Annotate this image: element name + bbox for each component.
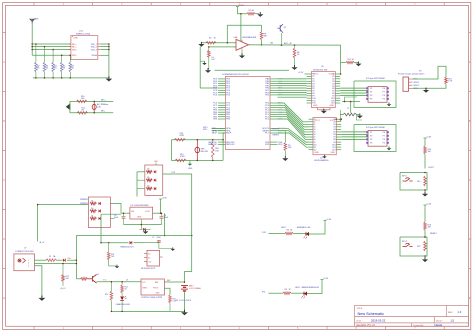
connector CON1 DC jack box — [14, 254, 35, 271]
wire U3 right to IC1 — [340, 87, 368, 89]
ground opamp vee — [241, 50, 243, 55]
diode D4 with resistor — [90, 217, 97, 220]
wire jack ground leg — [35, 266, 42, 298]
wire opamp in- input — [201, 42, 236, 44]
U1 top GND pin — [72, 36, 74, 37]
wire small net top right — [341, 62, 346, 64]
diode D8 small — [140, 228, 143, 230]
svg-text:VDD_2: VDD_2 — [91, 46, 97, 48]
svg-text:VOUT: VOUT — [145, 211, 151, 213]
svg-text:BOOT0: BOOT0 — [273, 129, 281, 131]
wire P2 loop to R21 — [413, 66, 447, 79]
resistor R21 — [445, 77, 448, 84]
svg-text:VDDA: VDDA — [92, 54, 98, 57]
svg-text:P4: P4 — [370, 143, 372, 145]
wire opamp in+ input — [209, 46, 236, 48]
svg-text:I12: I12 — [314, 149, 317, 151]
svg-text:ULN2003AFWG: ULN2003AFWG — [314, 159, 329, 162]
svg-text:R4: R4 — [285, 289, 287, 291]
svg-text:VDD_3: VDD_3 — [91, 49, 97, 51]
transistor Q3 — [278, 24, 284, 33]
svg-text:+3.3V: +3.3V — [426, 204, 432, 206]
wire big distribution net — [76, 235, 191, 237]
svg-text:R22: R22 — [417, 246, 420, 248]
resistor R mic top — [77, 100, 88, 103]
svg-text:Li-PO-70MAH: Li-PO-70MAH — [189, 287, 201, 290]
svg-text:D4: D4 — [91, 215, 93, 217]
svg-text:D7: D7 — [147, 185, 149, 187]
power flag +3.3V LED1 — [323, 220, 326, 222]
svg-text:PA2-OSC: PA2-OSC — [208, 143, 217, 146]
ground SW2 — [424, 256, 426, 259]
wire U5 rail drop to distribution net — [164, 213, 166, 235]
resistor pull R2 — [35, 44, 37, 62]
crystal Y1 — [343, 113, 357, 116]
svg-text:P4: P4 — [370, 99, 372, 101]
svg-text:LED2: LED2 — [281, 227, 286, 229]
resistor R LED1 — [285, 232, 293, 235]
svg-text:IC1 8pin DIP2.54MM: IC1 8pin DIP2.54MM — [366, 78, 385, 80]
wire mic/spk row 3 — [31, 47, 33, 50]
svg-text:P3: P3 — [370, 139, 372, 141]
capacitor C6 right — [161, 213, 163, 216]
svg-text:ADC_IN: ADC_IN — [284, 42, 292, 45]
wire diagonal bus MCU to U2 — [278, 103, 309, 122]
ground IC1 — [388, 102, 390, 104]
resistor R Q1 base — [81, 278, 88, 281]
IC U9 box — [147, 250, 160, 266]
svg-text:SIM800C-DS(2): SIM800C-DS(2) — [76, 34, 91, 36]
battery BAT1 — [181, 286, 188, 291]
svg-text:U5 XC6206P332MR: U5 XC6206P332MR — [131, 205, 150, 207]
svg-text:PROG: PROG — [153, 288, 159, 290]
svg-text:Q1: Q1 — [97, 274, 100, 276]
svg-text:P2: P2 — [370, 92, 372, 94]
key matrix box D5-D7 — [145, 165, 163, 195]
microphone symbol MK1 — [66, 104, 70, 110]
ground jack — [38, 296, 45, 301]
svg-text:C7: C7 — [152, 237, 154, 239]
svg-text:GND: GND — [313, 105, 318, 107]
U3 left pins — [307, 74, 316, 105]
svg-text:LTH7R-LTC4054-4.2BTR: LTH7R-LTC4054-4.2BTR — [141, 297, 163, 299]
svg-text:DS1302ZN+T&R: DS1302ZN+T&R — [313, 69, 328, 71]
wire boot chain — [424, 140, 426, 146]
svg-text:KEY1: KEY1 — [402, 176, 407, 178]
svg-text:LED3: LED3 — [295, 287, 300, 289]
wire mic/spk row 2 — [31, 44, 33, 47]
svg-text:MICP: MICP — [212, 133, 218, 135]
ground opamp top — [257, 12, 263, 17]
diode D6 with resistor — [146, 179, 152, 182]
svg-text:TITLE:: TITLE: — [357, 308, 364, 310]
svg-text:1/1: 1/1 — [451, 319, 455, 323]
diode D5 with resistor — [146, 171, 152, 174]
transistor Q1 — [88, 275, 97, 284]
svg-text:P12: P12 — [312, 103, 315, 105]
resistor R feedback — [260, 32, 263, 40]
svg-text:P5: P5 — [383, 99, 385, 101]
ground R17 — [355, 61, 361, 66]
resistor R opamp top — [247, 12, 255, 15]
svg-text:RESET: RESET — [273, 135, 280, 137]
wire key box2 left — [38, 204, 89, 206]
resistor R prog — [169, 295, 172, 303]
svg-text:PWRKEY: PWRKEY — [80, 199, 89, 201]
junction dots speaker — [197, 139, 199, 141]
svg-text:REV:: REV: — [448, 312, 453, 314]
wire key box2 right to U5 — [110, 204, 121, 214]
svg-text:GND: GND — [137, 216, 142, 218]
IC U2 box — [313, 118, 336, 155]
wire crystal drop — [339, 110, 341, 121]
svg-text:470R: 470R — [180, 156, 185, 158]
wire bottom rail of pull resistors — [33, 77, 109, 79]
wire opamp vcc vertical — [240, 14, 242, 41]
diode D9 MBR0520 — [130, 241, 132, 244]
svg-text:+3.3V: +3.3V — [426, 137, 432, 139]
wire crystal net — [342, 101, 360, 103]
svg-text:P6: P6 — [383, 139, 385, 141]
wire speaker nets to MCU — [212, 127, 226, 129]
svg-text:+3.3V: +3.3V — [239, 5, 245, 7]
wire crystal aux — [345, 97, 358, 102]
resistor R22 in SW2 loop — [424, 241, 427, 251]
svg-text:VDD: VDD — [278, 144, 283, 146]
svg-text:P1: P1 — [370, 132, 372, 134]
LED charging D11 — [120, 296, 126, 300]
switch SW1 loop — [400, 173, 427, 191]
switch SW2 symbol — [403, 244, 413, 247]
resistor R spk top — [174, 138, 185, 141]
svg-text:CONNECTOR-DC005: CONNECTOR-DC005 — [15, 251, 34, 253]
power flag +3.3V reset chain — [423, 205, 426, 207]
fuse F1 — [46, 259, 57, 262]
svg-text:KEY2: KEY2 — [402, 241, 407, 243]
MCU right pins — [262, 78, 286, 147]
junction dots U3 right — [340, 73, 342, 75]
svg-text:MIC+: MIC+ — [101, 99, 107, 101]
key box top pin — [155, 163, 157, 165]
wire mic/spk row 1 — [32, 43, 71, 45]
wire MIC- net — [94, 112, 113, 114]
wire D13 out — [163, 174, 192, 236]
IC2 body 8pin DIP — [368, 131, 387, 147]
wire mic loop — [69, 101, 71, 112]
junction dots GSM rails — [31, 43, 33, 45]
svg-text:U4 EM86M160(2)TR-LQFP44: U4 EM86M160(2)TR-LQFP44 — [222, 74, 249, 76]
wire U2 right to IC2 — [341, 131, 368, 133]
wire U5 top rail — [121, 212, 130, 214]
resistor pull R5 — [61, 55, 63, 62]
speaker SPK1 — [195, 140, 200, 161]
resistor R input — [206, 42, 216, 45]
LED D1 — [306, 232, 309, 236]
resistor R divider on output — [294, 44, 296, 46]
wire U6 PROG to R prog — [164, 288, 170, 295]
U9 right pin — [160, 256, 163, 258]
charger U6 box — [141, 279, 164, 295]
resistor R mic bottom — [77, 112, 88, 115]
ground U5 — [140, 219, 142, 225]
diode D10 — [63, 259, 65, 262]
ground P2 — [425, 88, 427, 90]
svg-text:MIC-: MIC- — [101, 111, 106, 113]
svg-text:CHRG: CHRG — [142, 288, 148, 290]
wire reset chain — [424, 207, 426, 222]
resistor pull R4 — [52, 50, 54, 63]
resistor R12 + charging LED — [121, 282, 123, 285]
resistor R boot right — [424, 146, 427, 154]
svg-text:R14: R14 — [105, 294, 108, 296]
ground small above MCU — [202, 61, 207, 65]
wire jack rows — [35, 259, 47, 261]
switch SW2 loop — [400, 237, 427, 256]
wire VIN rail to U5 — [101, 213, 121, 215]
power flag +3.3V opamp — [236, 7, 239, 9]
ground charger — [181, 310, 188, 315]
wire horizontal above MCU — [214, 69, 289, 71]
wire jack row2 — [35, 263, 77, 265]
svg-text:P7: P7 — [383, 135, 385, 137]
wire loop IC2 — [354, 125, 396, 152]
wire BOOT0 pulldown — [278, 131, 286, 143]
svg-text:+3.3V: +3.3V — [326, 219, 332, 221]
MCU left pins — [208, 79, 235, 147]
resistor R spk bottom — [175, 159, 186, 162]
svg-text:MCP6500T-E/OT: MCP6500T-E/OT — [141, 268, 156, 270]
svg-text:GND: GND — [156, 293, 161, 295]
svg-text:Female header pin(1)4.54mm: Female header pin(1)4.54mm — [398, 74, 425, 76]
svg-text:EMERALD-LED: EMERALD-LED — [297, 226, 311, 229]
resistor R24 upper — [107, 252, 110, 260]
svg-text:1.0: 1.0 — [458, 310, 462, 314]
resistor R23 sense — [62, 264, 64, 275]
svg-text:+B_LV: +B_LV — [39, 242, 45, 244]
svg-text:+3.3V: +3.3V — [162, 198, 168, 200]
wire row 4 — [31, 50, 33, 56]
svg-text:P5: P5 — [383, 143, 385, 145]
svg-text:D13: D13 — [172, 172, 175, 174]
wire diode rail — [101, 242, 129, 244]
resistor R15 in SW1 loop — [424, 176, 427, 186]
svg-text:2019-03-22: 2019-03-22 — [371, 319, 386, 323]
svg-text:Clande: Clande — [434, 323, 443, 327]
ground IC2 — [388, 146, 390, 148]
wire opamp output net — [249, 44, 341, 46]
svg-text:LMV358AIDGKR: LMV358AIDGKR — [242, 36, 257, 39]
svg-text:X12: X12 — [331, 103, 334, 105]
electret mic C15 — [92, 101, 96, 112]
svg-text:D3: D3 — [91, 208, 93, 210]
U2 top right pin red — [340, 118, 342, 120]
svg-text:U7: U7 — [24, 248, 26, 250]
svg-text:New Schematic: New Schematic — [358, 312, 384, 316]
svg-text:U6: U6 — [126, 280, 128, 282]
resistor R spk right — [212, 140, 214, 142]
wire antenna vertical — [31, 22, 33, 44]
resistor R14 left — [110, 282, 112, 292]
wire long vertical left of MCU — [200, 47, 218, 89]
wire charger bottom rail — [111, 310, 184, 312]
power flag +3.3V U5 — [159, 199, 162, 201]
key matrix box D2-D4 — [88, 197, 110, 228]
wire speaker loop — [171, 139, 223, 141]
U2 bottom ground — [324, 155, 326, 157]
diode D3 with resistor — [90, 210, 97, 213]
svg-text:MIC-: MIC- — [72, 46, 77, 48]
wire U5 bottom rail — [124, 224, 162, 226]
svg-text:BOOT: BOOT — [429, 167, 435, 169]
svg-text:Y1: Y1 — [347, 108, 349, 110]
svg-text:GND: GND — [73, 38, 78, 40]
svg-text:R7 0R: R7 0R — [249, 10, 255, 12]
resistor R LED2 — [283, 292, 291, 295]
wire MIC+ net — [94, 100, 113, 102]
IC1 body 8pin DIP — [368, 87, 387, 103]
svg-text:GND: GND — [315, 152, 320, 154]
svg-text:U3: U3 — [321, 66, 323, 68]
svg-text:D5: D5 — [147, 169, 149, 171]
svg-text:P3: P3 — [370, 95, 372, 97]
svg-text:GPIO2: GPIO2 — [413, 85, 420, 87]
ground R boot — [282, 156, 288, 161]
jack symbol inside — [18, 258, 26, 263]
svg-text:Date:: Date: — [357, 320, 363, 323]
ground D8 — [143, 229, 149, 234]
wire key box vertical drop — [136, 172, 138, 197]
svg-text:F1: F1 — [49, 256, 51, 258]
LED D2 — [304, 292, 307, 296]
svg-text:R17 1K: R17 1K — [348, 59, 355, 61]
svg-text:R3: R3 — [287, 230, 289, 232]
ground crystal — [357, 113, 363, 118]
svg-text:+3.3V: +3.3V — [298, 72, 304, 74]
svg-text:RESET: RESET — [430, 233, 437, 235]
wire output to U3 right vertical — [340, 45, 342, 74]
svg-text:IN+: IN+ — [148, 254, 151, 256]
U3 right pins — [331, 74, 340, 105]
svg-text:EasyEDA V5.1.24: EasyEDA V5.1.24 — [357, 324, 376, 327]
power flag +3.3V LED2 — [320, 280, 323, 282]
ground C7 — [159, 242, 173, 248]
svg-text:Drawn By:: Drawn By: — [414, 324, 424, 327]
power flag +3.3V boot — [423, 138, 426, 140]
svg-text:104: 104 — [211, 59, 214, 61]
svg-text:R15: R15 — [417, 181, 420, 183]
switch SW1 symbol — [403, 179, 413, 182]
svg-text:R5: R5 — [209, 38, 211, 40]
ground R6 — [291, 65, 297, 70]
ground input left — [198, 42, 204, 47]
svg-text:2: 2 — [28, 263, 29, 265]
wire opamp power — [238, 9, 248, 14]
diode D2 with resistor — [90, 202, 97, 205]
resistor R16 — [424, 222, 427, 230]
resistor R17 — [346, 61, 354, 64]
svg-text:8R0.5W: 8R0.5W — [201, 151, 208, 153]
svg-text:D2: D2 — [91, 200, 93, 202]
resistor pull R6 — [69, 55, 71, 62]
module U1.1 SIM800C box — [71, 36, 98, 60]
wire right vertical rail — [108, 44, 110, 78]
wire U1 right pins to vertical rail — [100, 43, 109, 45]
ground GSM rail — [106, 76, 113, 81]
title block — [355, 306, 469, 327]
wire charger rail — [97, 281, 142, 283]
svg-text:P8: P8 — [383, 132, 385, 134]
wire to gnd top — [255, 13, 259, 15]
wire Q1 base net — [76, 278, 80, 280]
svg-text:OUT: OUT — [148, 262, 151, 264]
capacitor C7 on rail — [144, 240, 159, 243]
svg-text:P6: P6 — [383, 95, 385, 97]
svg-text:PA2-OSC: PA2-OSC — [226, 143, 235, 146]
svg-text:3: 3 — [28, 265, 29, 267]
wire key box2 vertical to battery label — [37, 205, 39, 242]
svg-text:Sheet:: Sheet: — [436, 320, 443, 323]
diode D7 with resistor — [146, 187, 152, 190]
svg-text:O12: O12 — [332, 149, 336, 151]
svg-text:P7: P7 — [383, 92, 385, 94]
svg-text:VDD: VDD — [265, 144, 270, 146]
IC U3 box — [312, 72, 336, 108]
ground C4 — [205, 68, 211, 73]
svg-text:GND: GND — [331, 152, 336, 154]
svg-text:P2: P2 — [370, 135, 372, 137]
svg-text:SPK-: SPK- — [203, 129, 208, 131]
wire key box left pins — [137, 171, 145, 173]
svg-text:X1 Li-CON-PH2.0: X1 Li-CON-PH2.0 — [176, 300, 191, 302]
svg-text:SPK+: SPK+ — [72, 49, 78, 51]
wire Q3 down — [281, 33, 283, 45]
svg-text:WATERGREEN-LED: WATERGREEN-LED — [302, 286, 320, 289]
wire feedback loop — [227, 24, 261, 26]
svg-text:GND: GND — [330, 105, 335, 107]
wire battery down — [184, 292, 186, 312]
resistor R boot — [284, 143, 287, 151]
svg-text:470R: 470R — [180, 135, 185, 137]
svg-text:D6: D6 — [147, 177, 149, 179]
svg-text:+3.3V: +3.3V — [323, 278, 329, 280]
ground SW1 — [424, 190, 426, 194]
wire bus MCU to U3 horizontals — [278, 78, 307, 80]
svg-text:CHARGING-LED: CHARGING-LED — [116, 303, 131, 306]
svg-text:GPIO1: GPIO1 — [413, 82, 420, 84]
svg-text:GND: GND — [188, 168, 193, 170]
svg-text:IC2 8pin DIP2.54MM: IC2 8pin DIP2.54MM — [366, 127, 385, 129]
resistor pull R3 — [44, 47, 46, 62]
U2 right pins — [332, 119, 341, 151]
capacitor C4 vertical leg — [208, 47, 210, 50]
svg-text:P1: P1 — [370, 88, 372, 90]
regulator U5 box — [130, 207, 153, 219]
MCU U4 box — [225, 76, 270, 149]
op-amp U8 triangle — [236, 39, 249, 50]
antenna ANT1 — [30, 19, 35, 24]
ground speaker — [189, 160, 191, 163]
wire U6 BAT to battery — [164, 281, 184, 283]
capacitor C5 left — [123, 213, 125, 216]
U2 left pins — [309, 119, 317, 151]
svg-text:SPK-: SPK- — [72, 55, 77, 57]
svg-text:P8: P8 — [383, 88, 385, 90]
svg-text:+B_LV: +B_LV — [60, 288, 66, 290]
ground R24 — [115, 265, 120, 269]
svg-text:VCC1: VCC1 — [315, 120, 321, 122]
U9 left pins — [144, 253, 147, 255]
svg-text:1: 1 — [28, 260, 29, 262]
